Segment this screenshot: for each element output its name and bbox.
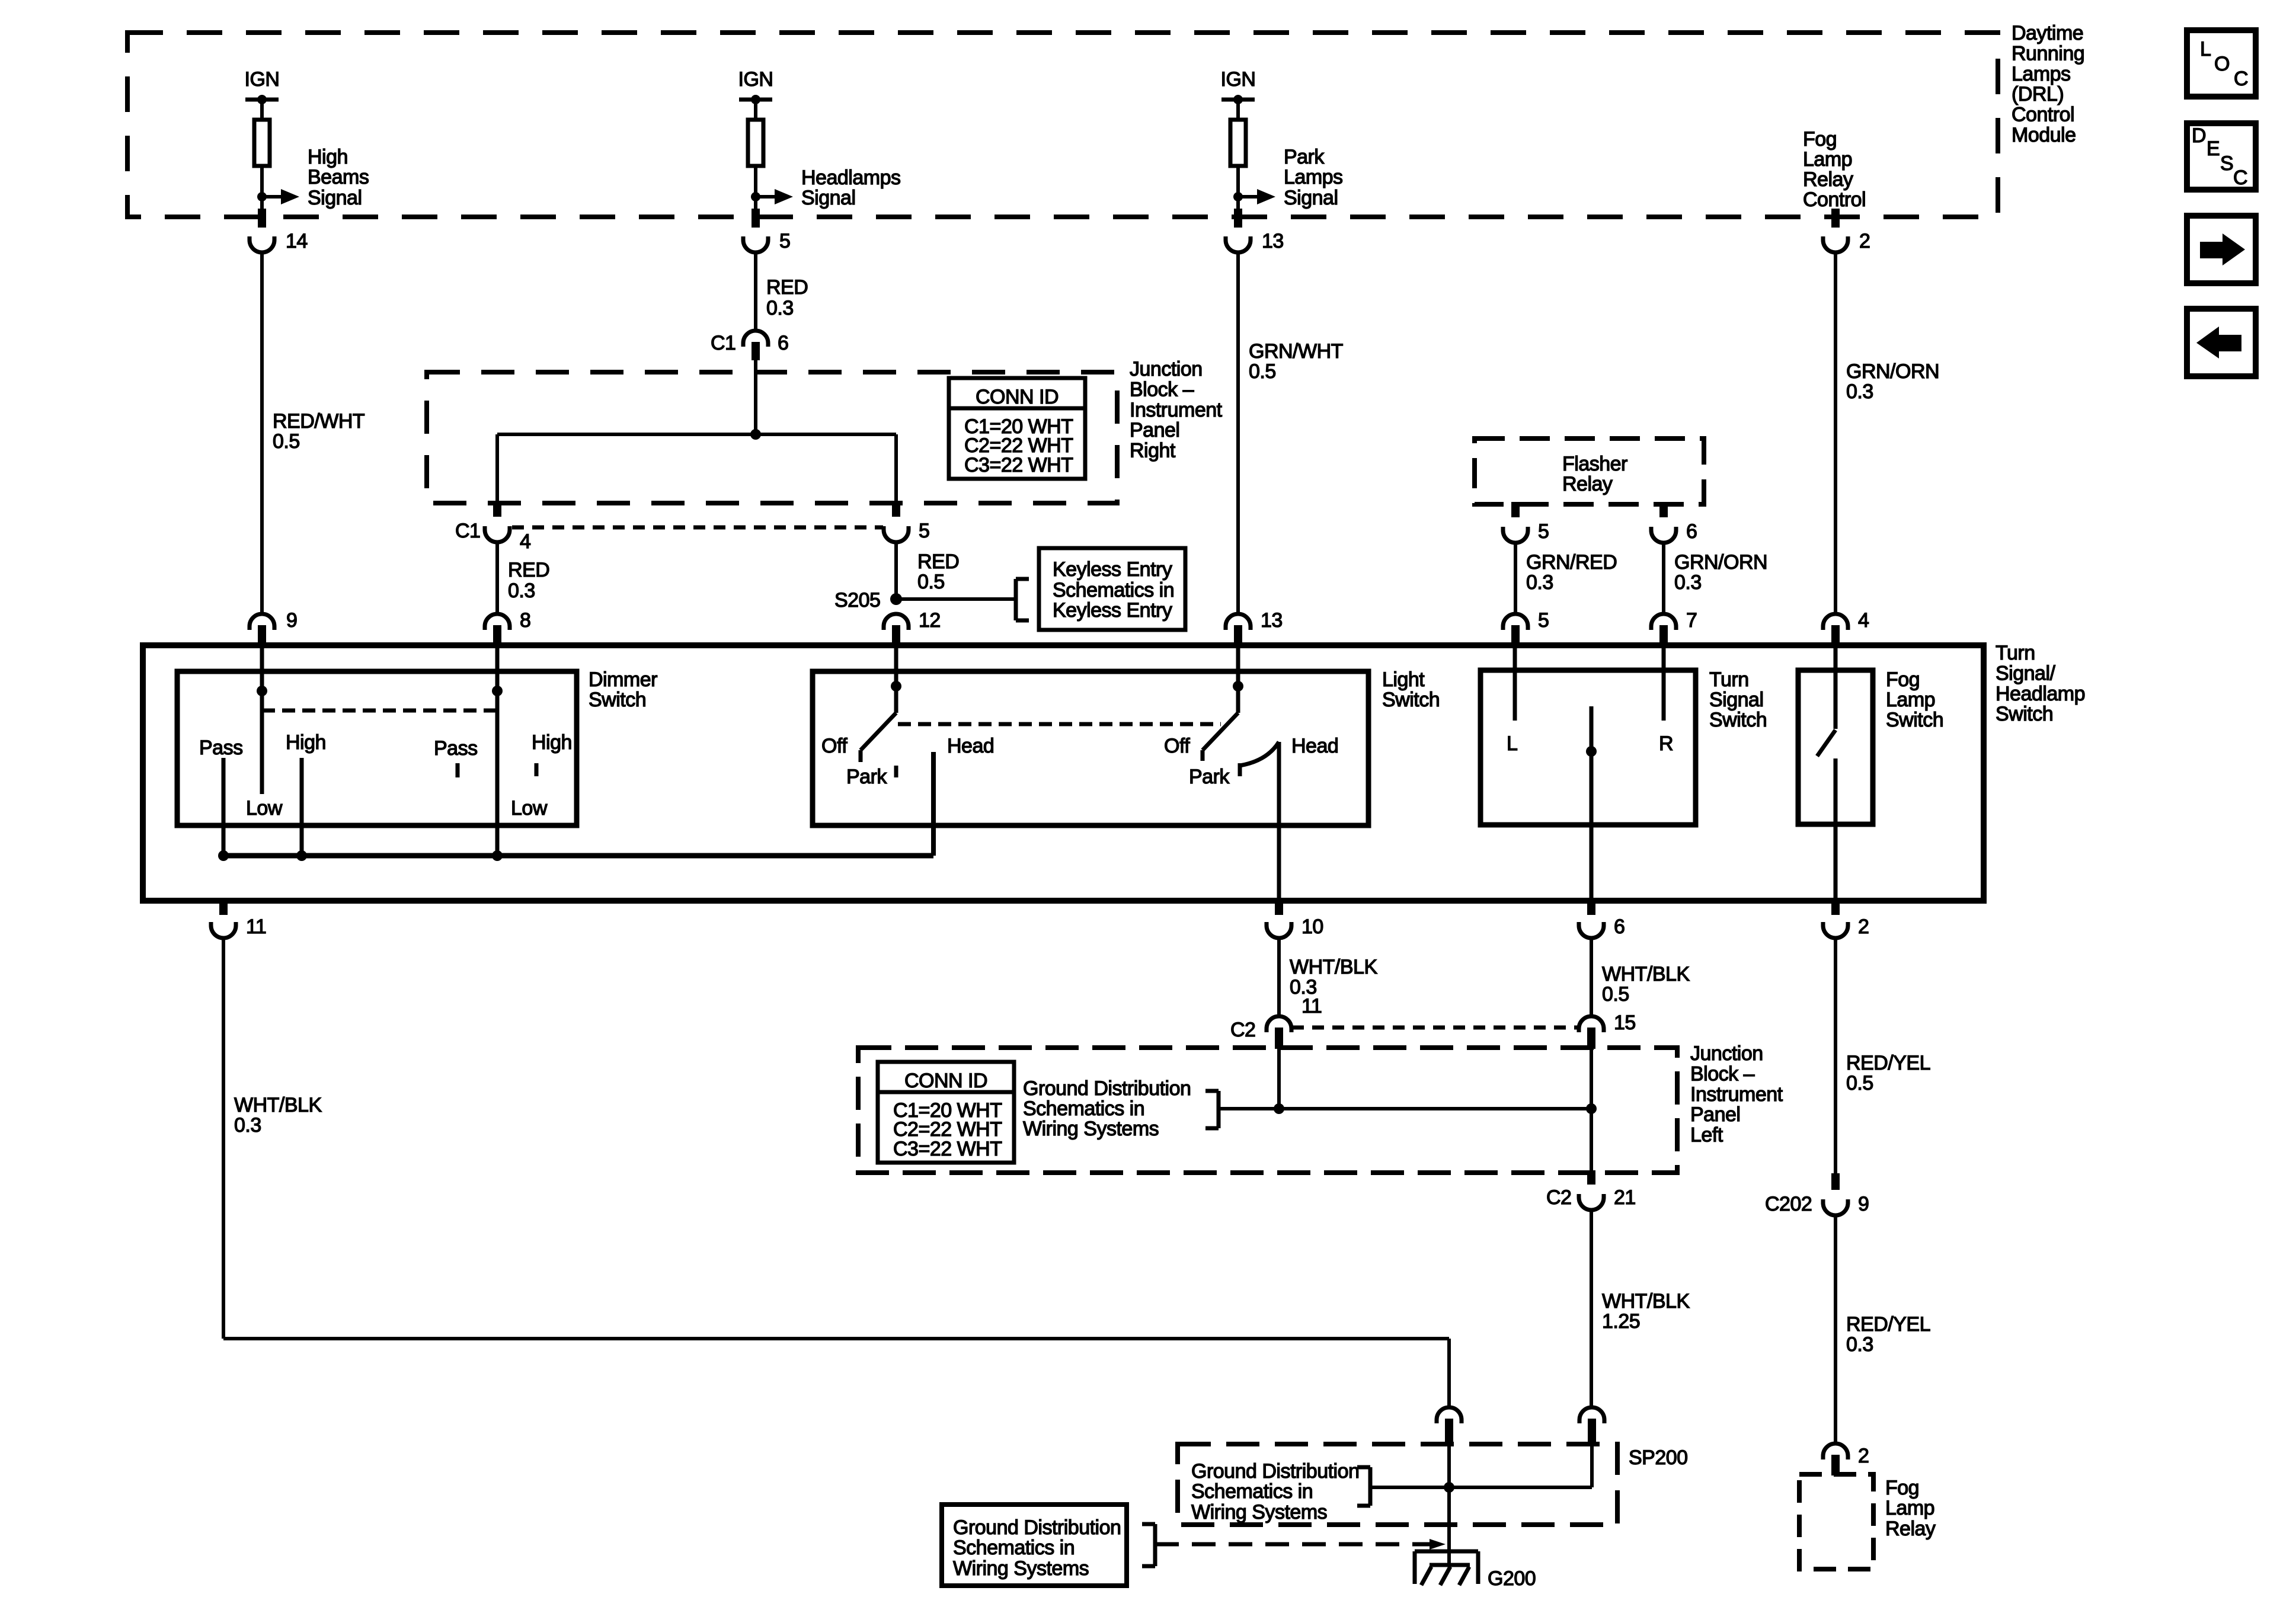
Fog Lamp Switch label [1886, 668, 1943, 731]
svg-text:0.5: 0.5 [917, 571, 945, 593]
fog switch lower contact wire [1834, 758, 1838, 900]
svg-text:15: 15 [1614, 1012, 1636, 1034]
dimmer pole 1 pivot dot [257, 686, 267, 696]
turn signal common dot [1586, 746, 1597, 757]
svg-text:Keyless Entry: Keyless Entry [1053, 599, 1172, 622]
svg-text:Relay: Relay [1562, 473, 1613, 495]
svg-text:12: 12 [919, 609, 941, 632]
IGN feed + fuse + park lamps signal arrow [1221, 68, 1343, 211]
dimmer Pass contact tick (pole2) [456, 763, 460, 777]
svg-text:0.3: 0.3 [234, 1114, 261, 1137]
svg-text:8: 8 [520, 609, 530, 632]
svg-text:4: 4 [1858, 609, 1869, 632]
label RED 0.3 [766, 276, 808, 319]
next arrow nav box [2187, 216, 2256, 283]
svg-text:High: High [308, 146, 348, 168]
Dimmer Switch box [177, 671, 577, 825]
svg-text:Instrument: Instrument [1690, 1083, 1783, 1106]
svg-text:2: 2 [1858, 916, 1869, 938]
svg-text:14: 14 [286, 230, 308, 252]
wire RED/WHT high beams [260, 253, 264, 613]
Keyless Entry reference box [1039, 548, 1185, 630]
label High (pole2) [532, 731, 572, 754]
svg-text:5: 5 [779, 230, 790, 252]
svg-text:Off: Off [821, 735, 848, 757]
G200 label [1488, 1567, 1536, 1590]
svg-text:IGN: IGN [738, 68, 773, 91]
switch pin 11 connector [211, 898, 266, 938]
light pole 1 park tick [894, 766, 898, 777]
svg-text:Lamp: Lamp [1886, 689, 1935, 711]
dimmer pin 9 connector [250, 609, 297, 646]
DESC nav box [2187, 123, 2256, 190]
svg-text:Pass: Pass [199, 737, 243, 759]
svg-text:Ground Distribution: Ground Distribution [1191, 1460, 1359, 1483]
label GRN/ORN 0.3 (fog) [1846, 360, 1939, 403]
Junction Block IP Left label [1690, 1042, 1783, 1147]
wire RED to dimmer pin 8 [495, 543, 499, 613]
label Low (pole1) [246, 797, 283, 820]
svg-text:Control: Control [1803, 188, 1866, 211]
SP200 right wire [1590, 1445, 1594, 1487]
Flasher Relay dashed box [1475, 438, 1704, 504]
svg-text:L: L [2200, 38, 2211, 60]
svg-text:Lamps: Lamps [2012, 63, 2071, 85]
LOC nav box [2187, 30, 2256, 97]
svg-text:2: 2 [1859, 230, 1870, 252]
label RED/WHT 0.5 [273, 410, 364, 453]
light pole 1 blade [861, 713, 896, 762]
svg-text:0.5: 0.5 [1602, 983, 1629, 1006]
turn signal L contact wire [1507, 646, 1517, 755]
Flasher Relay label [1562, 453, 1627, 495]
SP200 left wire [1447, 1445, 1451, 1537]
svg-text:Switch: Switch [1886, 709, 1943, 731]
svg-text:Fog: Fog [1885, 1477, 1919, 1499]
wire WHT/BLK 1.25 [1590, 1211, 1593, 1407]
Turn Signal Switch box [1480, 670, 1696, 825]
svg-text:9: 9 [1858, 1193, 1869, 1215]
svg-text:RED/WHT: RED/WHT [273, 410, 364, 433]
Fog Lamp Relay dashed box [1799, 1474, 1873, 1569]
svg-text:6: 6 [778, 332, 788, 354]
svg-text:Schematics in: Schematics in [1023, 1097, 1144, 1120]
turn signal pin 5 connector [1503, 609, 1549, 646]
svg-text:Ground Distribution: Ground Distribution [953, 1516, 1121, 1539]
svg-text:Schematics in: Schematics in [953, 1537, 1075, 1559]
svg-text:1.25: 1.25 [1602, 1310, 1640, 1333]
SP200 label [1629, 1446, 1688, 1469]
svg-text:C2: C2 [1230, 1019, 1255, 1041]
light switch pole 1 wire [894, 646, 898, 713]
DRL Control Module label [2012, 22, 2084, 146]
svg-text:(DRL): (DRL) [2012, 83, 2064, 105]
dimmer common bus wire [223, 853, 933, 859]
svg-text:WHT/BLK: WHT/BLK [1290, 956, 1377, 978]
label High (pole1) [286, 731, 326, 754]
svg-text:Switch: Switch [1709, 709, 1767, 731]
svg-text:Wiring Systems: Wiring Systems [1191, 1501, 1327, 1523]
svg-text:5: 5 [1538, 520, 1549, 543]
DRL Control Module dashed box [127, 33, 1998, 217]
Fog Lamp Relay label [1885, 1477, 1936, 1540]
label Park (pole2) [1189, 766, 1230, 788]
svg-text:Signal/: Signal/ [1996, 662, 2056, 684]
svg-text:Left: Left [1690, 1124, 1723, 1147]
Turn Signal Switch label [1709, 668, 1767, 731]
svg-text:4: 4 [520, 530, 530, 553]
junction node in IP right [750, 429, 761, 440]
svg-text:C: C [2233, 167, 2247, 189]
label GRN/RED 0.3 [1526, 551, 1617, 594]
Junction Block IP Right dashed box [427, 372, 1117, 503]
SP200 left pin connector [1437, 1407, 1462, 1445]
svg-text:Module: Module [2012, 124, 2076, 146]
svg-text:GRN/ORN: GRN/ORN [1674, 551, 1767, 574]
label Head (pole1) [947, 735, 994, 757]
wire right branch down [894, 434, 898, 502]
svg-text:10: 10 [1302, 916, 1323, 938]
DRL pin 2 connector [1823, 209, 1870, 252]
svg-text:RED: RED [508, 559, 549, 581]
svg-text:Panel: Panel [1690, 1103, 1740, 1126]
Junction Block IP Left dashed box [858, 1048, 1677, 1173]
SP200 internal bus [1370, 1486, 1592, 1489]
switch pin 10 connector [1267, 898, 1323, 938]
svg-text:11: 11 [1302, 995, 1322, 1017]
svg-text:2: 2 [1858, 1445, 1869, 1467]
label RED/YEL 0.3 [1846, 1313, 1930, 1356]
svg-text:Flasher: Flasher [1562, 453, 1627, 475]
SP200 junction dot [1444, 1482, 1454, 1493]
IGN feed + fuse + high beams signal arrow [245, 68, 369, 211]
SP200 dashed box [1178, 1444, 1617, 1525]
wire WHT/BLK pin10 [1277, 939, 1281, 1016]
light pole 2 blade [1203, 713, 1238, 761]
svg-text:High: High [286, 731, 326, 754]
Fog Lamp Switch box [1798, 670, 1873, 824]
turn signal pin 7 connector [1651, 609, 1697, 646]
label RED/YEL 0.5 [1846, 1052, 1930, 1094]
connector C2 pin 21 [1546, 1170, 1636, 1210]
svg-text:0.3: 0.3 [1846, 380, 1873, 403]
svg-text:Dimmer: Dimmer [589, 668, 657, 691]
light pole 2 wiper arc [1240, 742, 1279, 766]
svg-text:Ground Distribution: Ground Distribution [1023, 1077, 1191, 1100]
svg-text:5: 5 [919, 520, 929, 542]
connector C1 pin 4 [455, 501, 530, 553]
svg-text:R: R [1659, 732, 1673, 755]
dimmer linkage dashed [262, 709, 497, 713]
svg-text:C3=22 WHT: C3=22 WHT [893, 1138, 1002, 1160]
DRL pin 5 connector [743, 209, 790, 252]
svg-text:CONN ID: CONN ID [904, 1070, 987, 1092]
CONN ID table (left) [878, 1062, 1014, 1163]
svg-text:Lamp: Lamp [1885, 1497, 1934, 1519]
svg-text:Right: Right [1130, 440, 1176, 462]
switch pin 2 connector (fog) [1823, 898, 1869, 938]
label Pass (pole2) [434, 737, 478, 760]
light pole 2 park contact tick [1238, 763, 1242, 776]
bus junction dots [218, 850, 503, 861]
svg-text:O: O [2214, 53, 2230, 75]
label WHT/BLK 1.25 [1602, 1290, 1690, 1333]
svg-text:Turn: Turn [1996, 642, 2035, 664]
svg-text:Schematics in: Schematics in [1191, 1480, 1313, 1503]
wire RED to S205 [894, 543, 898, 599]
svg-text:Fog: Fog [1803, 128, 1837, 151]
dashed reference line with arrow [1155, 1539, 1446, 1550]
svg-text:E: E [2207, 137, 2220, 160]
svg-text:7: 7 [1686, 609, 1697, 632]
svg-text:C1: C1 [455, 520, 480, 542]
dimmer pin 8 connector [485, 609, 530, 646]
Turn Signal Headlamp Switch label [1996, 642, 2085, 725]
svg-text:0.3: 0.3 [508, 580, 535, 602]
svg-text:6: 6 [1686, 520, 1697, 543]
label WHT/BLK 0.3 (pin10) [1290, 956, 1377, 998]
bottom box bracket [1142, 1524, 1155, 1566]
svg-text:Wiring Systems: Wiring Systems [1023, 1118, 1159, 1140]
svg-text:C202: C202 [1765, 1193, 1812, 1215]
svg-text:C: C [2234, 68, 2248, 90]
svg-text:Off: Off [1164, 735, 1190, 757]
label Low (pole2) [511, 797, 548, 820]
label Park (pole1) [846, 766, 887, 788]
svg-text:Junction: Junction [1130, 358, 1203, 380]
wire GRN/ORN fog relay control [1834, 253, 1837, 613]
svg-text:RED: RED [917, 550, 959, 573]
svg-text:Headlamp: Headlamp [1996, 683, 2085, 705]
wire down to C2-21 [1590, 1109, 1593, 1172]
svg-text:Switch: Switch [1382, 689, 1440, 711]
wire C2-11 down to ground bus [1277, 1049, 1281, 1109]
wire pin11 horizontal run [223, 1337, 1449, 1340]
switch pin 6 connector [1579, 898, 1625, 938]
svg-text:0.5: 0.5 [1846, 1072, 1873, 1094]
light switch linkage dashed [898, 722, 1221, 726]
wire split horizontal [497, 433, 896, 436]
turn signal common wire [1590, 706, 1594, 900]
wire RED headlamps [754, 253, 757, 330]
svg-text:13: 13 [1262, 230, 1284, 252]
svg-text:0.5: 0.5 [273, 430, 300, 453]
svg-text:13: 13 [1261, 609, 1283, 632]
previous arrow nav box [2187, 309, 2256, 376]
svg-text:Fog: Fog [1886, 668, 1920, 691]
svg-text:0.3: 0.3 [1526, 571, 1553, 594]
svg-text:Switch: Switch [1996, 703, 2053, 725]
light pole 1 pivot dot [891, 681, 901, 692]
dimmer pole 2 pivot dot [492, 686, 503, 696]
svg-text:Pass: Pass [434, 737, 478, 760]
label GRN/ORN 0.3 [1674, 551, 1767, 594]
wire C2-15 down [1590, 1049, 1593, 1109]
wire to ground [1447, 1537, 1451, 1565]
SP200 bracket [1357, 1467, 1370, 1506]
svg-text:Turn: Turn [1709, 668, 1749, 691]
svg-text:21: 21 [1614, 1186, 1636, 1209]
svg-text:C2: C2 [1546, 1186, 1571, 1209]
svg-text:Wiring Systems: Wiring Systems [953, 1557, 1089, 1580]
dimmer pole 1 wire [260, 646, 264, 794]
wire GRN/RED [1514, 543, 1517, 613]
label WHT/BLK 0.3 (left) [234, 1094, 322, 1137]
IP left junction dots [1274, 1103, 1597, 1114]
ground distribution reference text (IP left) [1023, 1077, 1191, 1140]
label RED 0.3 (left branch) [508, 559, 549, 602]
DRL pin 14 connector [250, 209, 308, 252]
svg-text:S205: S205 [834, 589, 880, 612]
svg-text:G200: G200 [1488, 1567, 1536, 1590]
label Head (pole2) [1291, 735, 1338, 757]
connector C1 pin 5 [884, 501, 929, 542]
svg-text:Headlamps: Headlamps [801, 167, 900, 189]
CONN ID table (right) [949, 378, 1085, 479]
svg-text:D: D [2192, 124, 2206, 147]
wire WHT/BLK pin6 [1590, 939, 1593, 1016]
svg-text:Lamp: Lamp [1803, 148, 1852, 171]
fog switch upper contact wire [1834, 646, 1838, 729]
wire left branch down [495, 434, 499, 502]
label WHT/BLK 0.5 [1602, 963, 1690, 1006]
svg-text:Signal: Signal [1284, 187, 1338, 209]
label Pass (pole1) [199, 737, 243, 759]
wire GRN/WHT park lamps [1236, 253, 1240, 613]
Dimmer Switch label [589, 668, 657, 711]
svg-text:L: L [1507, 732, 1517, 755]
C1 connector dotted pair line [512, 526, 883, 530]
DRL pin 13 connector [1226, 209, 1284, 252]
ground distribution bracket (IP left) [1205, 1091, 1219, 1128]
Light Switch box [813, 671, 1368, 825]
svg-text:CONN ID: CONN ID [976, 386, 1059, 408]
svg-text:Instrument: Instrument [1130, 399, 1223, 421]
Fog Lamp Relay Control label [1803, 128, 1866, 211]
wire RED/YEL [1834, 939, 1837, 1177]
svg-text:GRN/ORN: GRN/ORN [1846, 360, 1939, 383]
SP200 right pin connector [1579, 1407, 1604, 1445]
ground distribution reference text (SP200) [1191, 1460, 1359, 1523]
dimmer High contact tick (pole2) [535, 763, 539, 776]
fog switch pin 4 connector [1823, 609, 1869, 646]
dimmer High contact wire [300, 758, 304, 856]
connector C1 pin 6 [711, 331, 788, 360]
connector C2 pin 11 [1230, 995, 1322, 1049]
svg-text:Light: Light [1382, 668, 1425, 691]
ground bus wire in IP left [1219, 1107, 1591, 1110]
light pole 2 pivot dot [1233, 681, 1243, 692]
light switch pin 13 connector [1226, 609, 1283, 646]
wire RED/YEL 0.3 [1834, 1216, 1837, 1443]
svg-text:Park: Park [846, 766, 887, 788]
label RED 0.5 [917, 550, 959, 593]
light pole 1 head contact wire [931, 752, 936, 856]
wire S205 to keyless ref [896, 597, 1016, 601]
Light Switch label [1382, 668, 1440, 711]
fog relay pin 2 connector [1823, 1443, 1869, 1475]
splice S205 [834, 589, 902, 612]
flasher pin 5 connector [1503, 502, 1549, 543]
svg-text:Relay: Relay [1885, 1518, 1936, 1540]
svg-text:GRN/WHT: GRN/WHT [1249, 340, 1343, 363]
svg-text:Signal: Signal [1709, 689, 1764, 711]
label Off (pole1) [821, 735, 848, 757]
svg-text:C3=22 WHT: C3=22 WHT [964, 454, 1073, 476]
light switch pin 12 connector [884, 609, 941, 646]
svg-text:C1: C1 [711, 332, 736, 354]
keyless reference bracket [1016, 579, 1029, 620]
svg-text:S: S [2220, 152, 2233, 175]
svg-text:Signal: Signal [308, 187, 362, 209]
svg-text:IGN: IGN [245, 68, 280, 91]
svg-text:Running: Running [2012, 42, 2084, 65]
svg-text:SP200: SP200 [1629, 1446, 1688, 1469]
turn signal R contact wire [1659, 646, 1673, 755]
svg-text:9: 9 [286, 609, 297, 632]
svg-text:0.3: 0.3 [766, 297, 794, 319]
dimmer pole 2 wire [495, 646, 500, 856]
svg-text:Park: Park [1189, 766, 1230, 788]
svg-text:Panel: Panel [1130, 419, 1179, 441]
IGN feed + fuse + headlamps signal arrow [738, 68, 901, 211]
svg-text:WHT/BLK: WHT/BLK [234, 1094, 322, 1116]
wire into junction block [754, 360, 757, 434]
svg-text:Block –: Block – [1690, 1062, 1755, 1085]
flasher pin 6 connector [1651, 502, 1697, 543]
svg-text:Park: Park [1284, 146, 1325, 168]
connector C2 pin 15 [1579, 1012, 1636, 1049]
svg-text:Low: Low [246, 797, 283, 820]
Ground Distribution reference box (bottom left) [942, 1505, 1127, 1586]
svg-text:RED: RED [766, 276, 808, 299]
svg-text:Head: Head [947, 735, 994, 757]
svg-text:High: High [532, 731, 572, 754]
light switch pole 2 wire [1236, 646, 1240, 713]
svg-text:6: 6 [1614, 916, 1625, 938]
Junction Block IP Right label [1130, 358, 1223, 462]
wire WHT/BLK from pin 11 [222, 939, 225, 1339]
svg-text:Keyless Entry: Keyless Entry [1053, 558, 1172, 581]
svg-text:Relay: Relay [1803, 168, 1853, 191]
C2 connector dotted pair line [1292, 1026, 1578, 1030]
svg-text:11: 11 [246, 916, 266, 938]
svg-text:RED/YEL: RED/YEL [1846, 1313, 1930, 1336]
svg-text:Signal: Signal [801, 187, 856, 209]
dimmer Pass contact wire [222, 758, 226, 856]
svg-text:RED/YEL: RED/YEL [1846, 1052, 1930, 1074]
label GRN/WHT 0.5 [1249, 340, 1343, 383]
wire pin11 corner down to SP200 [1447, 1339, 1451, 1407]
ground G200 symbol [1415, 1551, 1478, 1585]
svg-text:5: 5 [1538, 609, 1549, 632]
svg-text:Lamps: Lamps [1284, 166, 1343, 188]
svg-text:Low: Low [511, 797, 548, 820]
Turn Signal / Headlamp Switch outer box [143, 645, 1984, 901]
svg-text:0.3: 0.3 [1846, 1333, 1873, 1356]
svg-text:WHT/BLK: WHT/BLK [1602, 963, 1690, 985]
svg-text:Schematics in: Schematics in [1053, 579, 1174, 601]
svg-text:Daytime: Daytime [2012, 22, 2083, 44]
label Off (pole2) [1164, 735, 1190, 757]
svg-text:IGN: IGN [1221, 68, 1256, 91]
svg-text:Block –: Block – [1130, 378, 1194, 401]
light pole 2 head wire to pin 10 [1277, 742, 1281, 900]
connector C202 pin 9 [1765, 1173, 1869, 1215]
svg-text:WHT/BLK: WHT/BLK [1602, 1290, 1690, 1313]
svg-text:0.3: 0.3 [1674, 571, 1702, 594]
fog switch blade [1817, 730, 1835, 756]
